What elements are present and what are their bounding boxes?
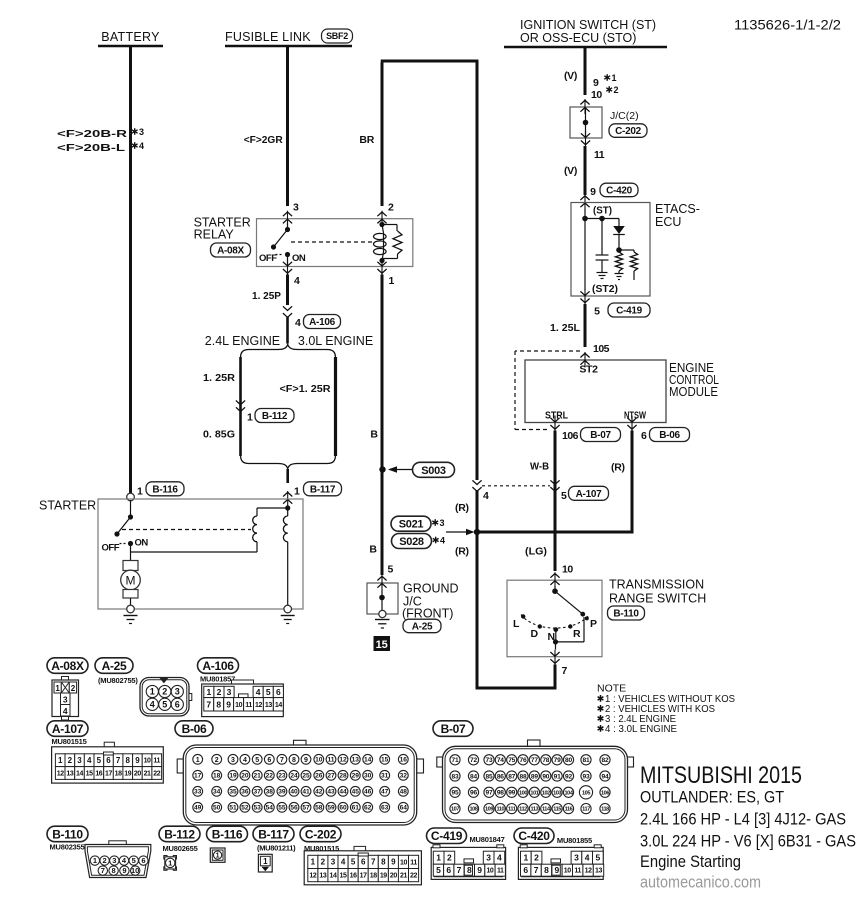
svg-text:58: 58 xyxy=(315,805,323,812)
svg-text:A-25: A-25 xyxy=(412,622,433,633)
svg-text:8: 8 xyxy=(292,757,296,764)
svg-text:MITSUBISHI 2015: MITSUBISHI 2015 xyxy=(640,762,802,789)
svg-text:13: 13 xyxy=(319,873,326,880)
svg-text:2.4L ENGINE: 2.4L ENGINE xyxy=(205,334,280,348)
svg-text:1: 1 xyxy=(612,73,617,83)
svg-text:5: 5 xyxy=(162,699,167,709)
svg-text:72: 72 xyxy=(470,757,477,764)
svg-text:87: 87 xyxy=(508,773,515,780)
svg-text:71: 71 xyxy=(452,757,459,764)
wire B relay pin1 to ground JC xyxy=(381,275,384,576)
svg-text:75: 75 xyxy=(508,757,515,764)
connector A-25 drawing xyxy=(140,678,189,717)
svg-text:52: 52 xyxy=(241,805,249,812)
svg-text:107: 107 xyxy=(451,807,459,813)
svg-text:10: 10 xyxy=(400,859,407,866)
svg-text:3: 3 xyxy=(486,853,491,863)
engine split brace bottom xyxy=(241,455,336,469)
2.4L branch wire xyxy=(239,357,242,456)
svg-text:10: 10 xyxy=(131,866,139,875)
svg-text:34: 34 xyxy=(213,789,221,796)
svg-text:J/C(2): J/C(2) xyxy=(610,110,639,122)
svg-text:(MU801211): (MU801211) xyxy=(257,844,296,853)
svg-text:A-106: A-106 xyxy=(202,659,234,673)
connector B-112 label xyxy=(159,826,200,842)
svg-text:4: 4 xyxy=(483,490,489,502)
svg-text:BR: BR xyxy=(359,134,374,146)
svg-text:C-202: C-202 xyxy=(305,827,337,841)
svg-text:2: 2 xyxy=(103,856,107,865)
svg-text:50: 50 xyxy=(213,805,221,812)
relay coil resistor xyxy=(382,224,397,226)
svg-text:93: 93 xyxy=(583,773,590,780)
svg-text:9: 9 xyxy=(590,186,596,198)
svg-text:11: 11 xyxy=(328,757,335,764)
svg-text:46: 46 xyxy=(364,789,372,796)
ETACS resistor 2 xyxy=(619,249,634,251)
svg-text:1: 1 xyxy=(93,856,97,865)
svg-text:6: 6 xyxy=(641,430,647,442)
svg-text:2: 2 xyxy=(217,687,222,697)
svg-text:B-116: B-116 xyxy=(212,827,243,841)
svg-text:1: 1 xyxy=(55,684,60,693)
svg-text:automecanico.com: automecanico.com xyxy=(640,873,761,892)
svg-text:85: 85 xyxy=(486,773,493,780)
connector A-08X label xyxy=(47,658,88,674)
svg-text:4: 4 xyxy=(150,699,155,709)
svg-text:14: 14 xyxy=(329,873,336,880)
svg-text:92: 92 xyxy=(565,773,572,780)
svg-text:1: 1 xyxy=(196,757,200,764)
engine split brace top xyxy=(241,345,336,359)
svg-text:17: 17 xyxy=(194,773,202,780)
svg-text:3.0L 224 HP - V6 [X] 6B31 - GA: 3.0L 224 HP - V6 [X] 6B31 - GAS xyxy=(640,832,856,851)
svg-text:13: 13 xyxy=(66,770,73,777)
svg-text:<F>20B-L: <F>20B-L xyxy=(57,142,126,154)
svg-text:4: 4 xyxy=(139,141,144,151)
svg-text:(R): (R) xyxy=(455,546,469,558)
ETACS capacitor xyxy=(601,219,603,256)
svg-text:100: 100 xyxy=(519,790,527,796)
svg-text:19: 19 xyxy=(380,873,387,880)
wire pin7 down-left thick xyxy=(554,665,557,687)
inline connector 1 B-112 xyxy=(236,401,245,405)
svg-text:17: 17 xyxy=(360,873,367,880)
svg-text:90: 90 xyxy=(542,773,549,780)
ETACS diode xyxy=(618,219,620,227)
svg-text:1: 1 xyxy=(168,859,172,868)
svg-text:47: 47 xyxy=(381,789,389,796)
connector B-117 drawing xyxy=(258,854,272,872)
svg-text:5: 5 xyxy=(595,853,600,863)
svg-text:43: 43 xyxy=(327,789,335,796)
svg-text:1: 1 xyxy=(311,858,316,867)
svg-text:4: 4 xyxy=(243,757,247,764)
svg-text:7: 7 xyxy=(457,865,462,875)
svg-text:5: 5 xyxy=(97,756,102,765)
svg-text:55: 55 xyxy=(278,805,286,812)
svg-text:MU801515: MU801515 xyxy=(52,737,87,746)
svg-text:ON: ON xyxy=(292,253,306,264)
svg-text:62: 62 xyxy=(364,805,372,812)
svg-text:3: 3 xyxy=(331,858,336,867)
svg-text:FUSIBLE LINK: FUSIBLE LINK xyxy=(225,30,311,44)
svg-text:25: 25 xyxy=(302,773,310,780)
svg-text:11: 11 xyxy=(497,868,504,875)
svg-text:7: 7 xyxy=(371,858,376,867)
svg-text:30: 30 xyxy=(364,773,372,780)
svg-text:C-419: C-419 xyxy=(431,829,463,843)
svg-text:A-08X: A-08X xyxy=(217,246,244,257)
splice S003 xyxy=(379,466,385,472)
svg-text:10: 10 xyxy=(564,868,571,875)
svg-text:R: R xyxy=(573,628,581,640)
svg-text:4: 4 xyxy=(256,687,261,697)
svg-text:(V): (V) xyxy=(564,165,577,177)
svg-text:4: 4 xyxy=(585,853,590,863)
svg-text:21: 21 xyxy=(144,770,151,777)
svg-text:73: 73 xyxy=(486,757,493,764)
svg-text:6: 6 xyxy=(276,687,281,697)
relay pin 4 xyxy=(283,262,292,266)
ground symbol xyxy=(375,619,390,621)
svg-text:22: 22 xyxy=(266,773,274,780)
svg-text:5: 5 xyxy=(561,490,567,502)
svg-text:4 : 3.0L ENGINE: 4 : 3.0L ENGINE xyxy=(605,723,677,735)
svg-text:8: 8 xyxy=(112,866,116,875)
svg-text:57: 57 xyxy=(302,805,310,812)
wire fusible link to relay pin 3 xyxy=(286,47,289,206)
relay pin 2 xyxy=(377,212,386,216)
svg-text:C-419: C-419 xyxy=(616,306,642,317)
svg-text:(ST2): (ST2) xyxy=(592,284,618,295)
svg-text:OFF: OFF xyxy=(259,253,277,264)
connector B-07 label xyxy=(433,721,473,737)
svg-text:17: 17 xyxy=(105,770,112,777)
splice S028 *4 xyxy=(392,534,432,549)
svg-text:27: 27 xyxy=(327,773,335,780)
svg-text:101: 101 xyxy=(530,790,538,796)
svg-text:10: 10 xyxy=(144,758,151,765)
connector C-420 drawing xyxy=(518,847,603,879)
connector A-08X drawing xyxy=(62,677,69,682)
connector B-06 drawing xyxy=(294,740,307,746)
svg-text:6: 6 xyxy=(106,756,111,765)
svg-text:19: 19 xyxy=(229,773,237,780)
svg-text:16: 16 xyxy=(400,757,408,764)
svg-text:1: 1 xyxy=(137,486,143,498)
svg-text:33: 33 xyxy=(194,789,202,796)
svg-text:13: 13 xyxy=(595,868,602,875)
svg-text:ST2: ST2 xyxy=(579,364,598,376)
svg-text:D: D xyxy=(531,628,539,640)
ground J/C (FRONT) box xyxy=(367,583,398,614)
svg-text:6: 6 xyxy=(523,865,528,875)
svg-text:GROUND: GROUND xyxy=(403,582,459,596)
svg-text:M: M xyxy=(126,574,136,588)
connector B-116 label xyxy=(207,826,248,842)
svg-text:1: 1 xyxy=(150,687,155,697)
inline connector 4 A-106 xyxy=(283,306,292,310)
svg-text:1: 1 xyxy=(247,412,253,424)
svg-text:116: 116 xyxy=(565,807,573,813)
svg-text:22: 22 xyxy=(410,873,417,880)
svg-text:S021: S021 xyxy=(399,519,424,531)
connector A-107 drawing xyxy=(104,742,114,747)
svg-text:2.4L 166 HP - L4 [3] 4J12- GAS: 2.4L 166 HP - L4 [3] 4J12- GAS xyxy=(640,810,846,829)
svg-text:BATTERY: BATTERY xyxy=(101,30,160,44)
svg-text:MU801857: MU801857 xyxy=(200,675,235,684)
svg-text:15: 15 xyxy=(381,757,389,764)
starter pin 1 B-116 xyxy=(127,493,135,501)
svg-text:80: 80 xyxy=(565,757,572,764)
svg-text:61: 61 xyxy=(352,805,360,812)
wire STRL W-B xyxy=(554,431,557,572)
svg-text:3: 3 xyxy=(440,518,445,528)
svg-text:4: 4 xyxy=(497,853,502,863)
svg-text:B-06: B-06 xyxy=(182,722,207,736)
svg-text:32: 32 xyxy=(400,773,408,780)
connector B-117 label xyxy=(253,826,294,842)
connector B-116 drawing xyxy=(210,848,225,862)
svg-text:SBF2: SBF2 xyxy=(326,31,348,41)
svg-text:A-106: A-106 xyxy=(309,317,335,328)
svg-text:117: 117 xyxy=(582,807,590,813)
svg-text:48: 48 xyxy=(400,789,408,796)
ECM pin 106 B-07 xyxy=(550,418,559,422)
svg-text:24: 24 xyxy=(290,773,298,780)
svg-text:15: 15 xyxy=(376,639,388,651)
svg-text:9: 9 xyxy=(122,866,126,875)
svg-text:74: 74 xyxy=(497,757,504,764)
svg-text:9: 9 xyxy=(555,865,560,875)
svg-text:11: 11 xyxy=(410,859,417,866)
svg-text:5: 5 xyxy=(388,564,394,576)
svg-text:20: 20 xyxy=(390,873,397,880)
svg-text:14: 14 xyxy=(76,770,83,777)
svg-text:C-202: C-202 xyxy=(615,126,641,137)
transmission pin 7 xyxy=(550,652,559,656)
svg-text:53: 53 xyxy=(254,805,262,812)
svg-text:MU802655: MU802655 xyxy=(163,844,198,853)
svg-text:5: 5 xyxy=(255,757,259,764)
svg-text:S028: S028 xyxy=(399,536,424,548)
svg-text:5: 5 xyxy=(132,856,136,865)
svg-text:3: 3 xyxy=(227,687,232,697)
svg-text:9: 9 xyxy=(135,756,140,765)
svg-text:4: 4 xyxy=(294,275,300,287)
svg-text:105: 105 xyxy=(593,343,610,355)
svg-text:MODULE: MODULE xyxy=(669,385,718,399)
starter solenoid wiring xyxy=(287,505,289,516)
svg-text:A-107: A-107 xyxy=(52,722,84,736)
switch lever P position xyxy=(554,586,556,592)
starter pull-in coil xyxy=(253,516,257,542)
svg-text:B-110: B-110 xyxy=(52,827,83,841)
starter pin 1 B-117 xyxy=(283,492,292,496)
connector B-06 label xyxy=(175,721,213,737)
svg-text:22: 22 xyxy=(153,770,160,777)
svg-text:(R): (R) xyxy=(455,502,469,514)
svg-text:94: 94 xyxy=(602,773,609,780)
svg-text:C-420: C-420 xyxy=(518,829,550,843)
svg-text:102: 102 xyxy=(542,790,550,796)
svg-text:B: B xyxy=(369,544,377,556)
svg-text:0. 85G: 0. 85G xyxy=(203,429,235,441)
svg-text:14: 14 xyxy=(364,757,372,764)
svg-text:8: 8 xyxy=(216,699,221,709)
svg-text:B-110: B-110 xyxy=(613,609,639,620)
connector B-112 drawing xyxy=(164,856,167,860)
wire 1.25L to ECM pin 105 xyxy=(584,304,587,347)
svg-text:12: 12 xyxy=(339,757,347,764)
svg-text:5: 5 xyxy=(436,865,441,875)
svg-text:106: 106 xyxy=(601,790,609,796)
wire 1.25P xyxy=(286,275,289,306)
svg-text:59: 59 xyxy=(327,805,335,812)
junction connector J/C(2) C-202 xyxy=(570,107,602,138)
svg-text:1: 1 xyxy=(389,275,395,287)
svg-text:STARTER: STARTER xyxy=(39,499,96,513)
svg-text:5: 5 xyxy=(266,687,271,697)
svg-text:5: 5 xyxy=(594,306,600,318)
svg-text:45: 45 xyxy=(352,789,360,796)
transmission range switch box xyxy=(507,580,602,657)
connector C-419 label xyxy=(427,828,467,844)
svg-text:MU801847: MU801847 xyxy=(470,835,505,844)
svg-text:10: 10 xyxy=(486,868,493,875)
svg-text:3: 3 xyxy=(77,756,82,765)
wire NTSW (R) thick xyxy=(631,431,634,534)
svg-text:8: 8 xyxy=(126,756,131,765)
svg-text:6: 6 xyxy=(175,699,180,709)
svg-text:106: 106 xyxy=(562,430,579,442)
ground id 15 xyxy=(374,636,391,651)
svg-text:12: 12 xyxy=(585,868,592,875)
svg-text:7: 7 xyxy=(116,756,121,765)
svg-text:B-112: B-112 xyxy=(164,827,195,841)
svg-text:2: 2 xyxy=(534,853,539,863)
svg-text:2: 2 xyxy=(614,85,619,95)
svg-text:97: 97 xyxy=(486,790,493,797)
svg-text:P: P xyxy=(590,618,597,630)
svg-text:7: 7 xyxy=(101,866,105,875)
svg-text:<F>20B-R: <F>20B-R xyxy=(57,128,128,140)
svg-text:4: 4 xyxy=(440,536,445,546)
svg-text:1: 1 xyxy=(58,756,63,765)
svg-text:OUTLANDER: ES, GT: OUTLANDER: ES, GT xyxy=(640,788,784,807)
svg-text:76: 76 xyxy=(520,757,527,764)
svg-text:(ST): (ST) xyxy=(593,206,612,217)
starter actuation dashed link xyxy=(122,529,251,531)
svg-text:2: 2 xyxy=(388,202,394,214)
svg-text:63: 63 xyxy=(381,805,389,812)
svg-text:9: 9 xyxy=(391,858,396,867)
connector C-202 label xyxy=(300,826,341,842)
svg-text:1: 1 xyxy=(294,486,300,498)
svg-text:113: 113 xyxy=(531,807,539,813)
svg-text:9: 9 xyxy=(477,865,482,875)
wire to starter B-117 xyxy=(286,469,289,483)
svg-text:MU802355: MU802355 xyxy=(50,843,85,852)
svg-text:79: 79 xyxy=(554,757,561,764)
svg-text:C-420: C-420 xyxy=(606,186,632,197)
svg-text:115: 115 xyxy=(553,807,561,813)
svg-text:11: 11 xyxy=(153,758,160,765)
svg-text:41: 41 xyxy=(302,789,310,796)
svg-text:108: 108 xyxy=(470,807,478,813)
svg-text:B-116: B-116 xyxy=(152,484,178,495)
svg-text:95: 95 xyxy=(452,790,459,797)
relay pin 3 xyxy=(283,212,292,216)
starter box xyxy=(98,499,303,609)
svg-text:11: 11 xyxy=(245,702,252,709)
svg-text:110: 110 xyxy=(496,807,504,813)
svg-text:(MU802755): (MU802755) xyxy=(98,676,138,685)
svg-text:10: 10 xyxy=(562,564,573,576)
svg-text:77: 77 xyxy=(531,757,538,764)
svg-text:10: 10 xyxy=(235,702,242,709)
starter relay box xyxy=(257,219,413,267)
svg-text:118: 118 xyxy=(601,807,609,813)
svg-text:(R): (R) xyxy=(611,462,625,474)
svg-text:2: 2 xyxy=(68,756,73,765)
svg-text:<F>2GR: <F>2GR xyxy=(244,134,283,146)
svg-text:7: 7 xyxy=(562,665,568,677)
svg-text:Engine Starting: Engine Starting xyxy=(640,852,741,871)
svg-text:1. 25L: 1. 25L xyxy=(550,322,581,334)
svg-text:A-25: A-25 xyxy=(102,659,127,673)
svg-text:112: 112 xyxy=(519,807,527,813)
svg-text:W-B: W-B xyxy=(530,461,549,473)
svg-text:1: 1 xyxy=(263,857,268,866)
svg-text:31: 31 xyxy=(381,773,389,780)
starter motor xyxy=(130,544,132,561)
connector A-25 label xyxy=(95,658,133,674)
svg-text:91: 91 xyxy=(554,773,561,780)
svg-text:12: 12 xyxy=(309,873,316,880)
engine control module dashed outline xyxy=(515,350,580,352)
wire BR loop: relay pin2 up, across, down right side xyxy=(381,63,384,207)
svg-text:54: 54 xyxy=(266,805,274,812)
svg-text:1: 1 xyxy=(206,687,211,697)
svg-text:35: 35 xyxy=(229,789,237,796)
svg-text:15: 15 xyxy=(340,873,347,880)
contacts arc L D N R P xyxy=(521,615,589,629)
svg-text:88: 88 xyxy=(520,773,527,780)
svg-text:2: 2 xyxy=(447,853,452,863)
svg-text:4: 4 xyxy=(295,317,301,329)
svg-text:IGNITION SWITCH (ST): IGNITION SWITCH (ST) xyxy=(520,18,656,32)
svg-text:26: 26 xyxy=(315,773,323,780)
svg-text:A-107: A-107 xyxy=(576,489,602,500)
svg-text:RANGE SWITCH: RANGE SWITCH xyxy=(609,592,706,606)
svg-text:20: 20 xyxy=(241,773,249,780)
junction dot thick wires xyxy=(474,529,480,535)
svg-text:29: 29 xyxy=(352,773,360,780)
connector A-106 drawing xyxy=(232,680,254,685)
svg-text:ECU: ECU xyxy=(655,215,681,229)
svg-text:6: 6 xyxy=(267,757,271,764)
svg-text:13: 13 xyxy=(265,702,272,709)
svg-text:21: 21 xyxy=(400,873,407,880)
ECM pin 6 B-06 xyxy=(627,418,636,422)
wire battery feed xyxy=(129,47,132,494)
svg-text:MU801855: MU801855 xyxy=(557,836,592,845)
svg-text:104: 104 xyxy=(565,790,574,796)
svg-text:89: 89 xyxy=(531,773,538,780)
connector C-420 label xyxy=(514,828,554,844)
